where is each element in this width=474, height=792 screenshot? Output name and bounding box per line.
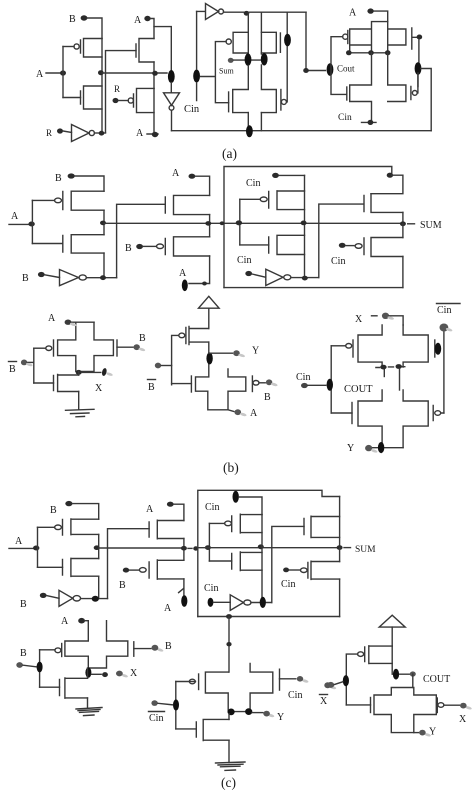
tg cross X gate xyxy=(58,322,114,371)
inverter INV2 (down) xyxy=(164,93,180,110)
wire TG risers down xyxy=(248,12,261,54)
scan smear near dot bYc xyxy=(371,449,378,454)
wire c rail to stage2 xyxy=(99,547,184,549)
label B (cX right) xyxy=(165,641,172,652)
junction blob bottom rail xyxy=(246,125,253,137)
node Cin blob cY right xyxy=(297,676,303,682)
wire Cinbar riser c xyxy=(272,526,304,602)
label A (stage2 bottom) xyxy=(136,128,144,139)
label A (right block) xyxy=(349,8,357,19)
wire stage2 tap to inverter column xyxy=(154,27,171,71)
wire box TG riser xyxy=(304,175,306,278)
svg-text:Cin: Cin xyxy=(237,255,251,266)
wire sumP gate b xyxy=(346,245,354,247)
node Xbar dot ccout xyxy=(327,682,334,688)
pmos P1 (B source) xyxy=(74,39,102,58)
junction blob XOR out xyxy=(168,70,175,83)
gate wire bN1 xyxy=(32,243,62,245)
node box top right dot xyxy=(387,173,393,178)
wire stage1 output riser xyxy=(101,39,103,134)
label A (stage1 input) xyxy=(36,69,44,80)
svg-text:Cin: Cin xyxy=(149,713,163,724)
vdd triangle (c) xyxy=(379,615,405,627)
node Y feed dot c xyxy=(226,614,232,619)
svg-text:COUT: COUT xyxy=(344,384,373,395)
node rail mark at box edge xyxy=(220,221,225,225)
node A2 dot xyxy=(144,16,150,21)
box frame (b) xyxy=(224,167,392,288)
label (a) xyxy=(222,146,237,161)
wire A to cX cross xyxy=(85,620,88,622)
wire A gate column right xyxy=(286,12,288,102)
wire box bottom edge c xyxy=(198,616,340,618)
nmos X right xyxy=(116,340,118,356)
svg-text:SUM: SUM xyxy=(420,220,442,231)
wire sumN to rail xyxy=(402,212,404,223)
gate wire cP1 xyxy=(38,526,55,528)
label R (pmos P2 gate) xyxy=(114,84,120,94)
node cbox TG out dot xyxy=(258,544,264,549)
wire ccoutP riser xyxy=(392,646,409,674)
label Cin (box lower left) xyxy=(237,255,251,266)
svg-text:Cin: Cin xyxy=(288,690,302,701)
scan smear near dot bBr xyxy=(271,382,278,387)
label B (cX bus) xyxy=(20,648,27,659)
node X dot ccout xyxy=(460,703,467,709)
label (b) xyxy=(223,460,239,475)
label Cinbar (c Y) xyxy=(149,712,165,725)
svg-text:Cin: Cin xyxy=(331,256,345,267)
tg cross cout lower xyxy=(358,390,428,448)
svg-text:A: A xyxy=(146,504,154,515)
wire Y out c xyxy=(252,712,263,714)
wire A right feed xyxy=(374,11,388,22)
junction blob cINV1 out xyxy=(92,596,99,602)
node SUM dot c xyxy=(337,545,343,550)
nmos cY right xyxy=(279,669,281,690)
wire cout mid connector xyxy=(399,369,401,391)
node A2 dot c xyxy=(167,502,174,507)
node inverter in dot xyxy=(57,128,63,133)
gate wire A to P1 xyxy=(63,46,74,48)
pmos ccout right xyxy=(437,698,444,713)
wire TG lower to rail xyxy=(248,113,261,131)
node Cinbar dot cY xyxy=(151,700,157,706)
gate wire cY left xyxy=(176,681,196,683)
node box rail in dot xyxy=(236,220,242,225)
wire bottom rail (a) xyxy=(172,130,432,132)
wire cY pulldown risers xyxy=(228,714,230,763)
nmos N2 xyxy=(136,39,154,63)
junction blob sum row left xyxy=(245,53,252,65)
label X (ccout) xyxy=(459,714,467,725)
label COUT (c) xyxy=(423,674,450,685)
node Y feed mid dot xyxy=(226,642,231,646)
node A dot c X gate xyxy=(78,618,85,624)
node small dot A bottom b xyxy=(202,282,207,286)
svg-text:B: B xyxy=(119,580,126,591)
wire A to X cross xyxy=(71,321,94,323)
wire bINV1 out xyxy=(86,277,116,279)
wire INV1 out xyxy=(94,132,105,134)
tg cross X gate c xyxy=(65,621,128,668)
node X dot cout xyxy=(382,313,389,319)
node box TG out dot xyxy=(301,221,307,226)
svg-text:Cout: Cout xyxy=(337,64,355,74)
svg-text:B: B xyxy=(20,648,27,659)
label B (X right) xyxy=(139,333,146,344)
node Y dot cout xyxy=(365,445,372,451)
nmos cout lower left xyxy=(351,403,353,424)
node c stage1 out dot xyxy=(94,545,100,550)
wire P2 gate xyxy=(119,100,129,102)
label Cinbar (b) xyxy=(437,304,461,317)
wire A bottom Y xyxy=(228,410,234,412)
nmos bN2 xyxy=(165,195,209,214)
gate wire cN1 xyxy=(38,566,63,568)
label A (X gate) xyxy=(48,313,56,324)
wire Bbar riser to stage2 gate xyxy=(106,51,137,133)
pmos gate bar TG upper left xyxy=(226,39,231,44)
junction blob ccout bus xyxy=(343,675,349,686)
pmos cP2 xyxy=(139,560,183,579)
nmos cX pulldown xyxy=(60,678,88,698)
svg-text:A: A xyxy=(11,211,19,222)
node box inv in dot xyxy=(245,271,252,276)
ground (b) xyxy=(66,409,95,417)
pmos X left xyxy=(46,340,54,356)
gate wire cout upper left xyxy=(331,345,346,347)
node P2 gate dot xyxy=(113,98,119,103)
svg-text:Y: Y xyxy=(347,443,354,454)
svg-text:Y: Y xyxy=(277,712,284,723)
label Cin (c box top) xyxy=(205,502,219,513)
nmos X pulldown xyxy=(54,375,79,392)
wire Bbar riser b xyxy=(117,204,166,277)
gate wire ccout left xyxy=(346,704,370,706)
node B dot Y right xyxy=(266,379,272,385)
inverter boxINV xyxy=(266,269,291,285)
wire X out xyxy=(82,371,101,373)
svg-text:Y: Y xyxy=(429,727,436,738)
wire A2 feed b xyxy=(195,176,209,195)
label Bbar (Y gate) xyxy=(148,380,156,394)
pmos csumP xyxy=(301,561,340,579)
label (c) xyxy=(221,775,236,790)
pmos bP2 xyxy=(157,237,210,256)
label Cin (c box lower) xyxy=(204,583,218,594)
node stage2 out dot xyxy=(152,71,158,76)
label Y (b) xyxy=(252,346,259,357)
gate wire boxP1 xyxy=(240,198,260,200)
nmos N1 xyxy=(81,86,103,109)
scan smear near dot cYr xyxy=(424,732,431,737)
wire Cinbar bus right xyxy=(443,331,445,413)
gate wire A to N1 xyxy=(63,97,81,99)
nmos gate right block lower xyxy=(346,87,348,100)
node c inv in dot xyxy=(40,593,47,598)
junction blob box top c xyxy=(233,491,239,503)
wire box gate bus xyxy=(239,199,241,245)
pmos Y top xyxy=(179,327,209,345)
node c stage2 out dot xyxy=(181,546,187,551)
wire blob to right rail xyxy=(418,69,431,131)
pmos cout lower right xyxy=(433,406,444,421)
inverter INV3 (top) xyxy=(197,4,224,20)
wire Cinbar to bus xyxy=(158,703,173,705)
wire vdd down c xyxy=(391,627,393,646)
label A (stage2 top) xyxy=(134,15,142,26)
junction blob c inv in xyxy=(208,598,214,607)
label B (c inverter) xyxy=(20,599,27,610)
pmos boxP1 xyxy=(260,191,304,210)
wire A gate bus xyxy=(62,47,64,98)
label B (b stage1) xyxy=(55,173,62,184)
svg-text:Cin: Cin xyxy=(246,178,260,189)
label X (cout block) xyxy=(355,314,363,325)
wire csumP gate xyxy=(289,569,300,571)
wire P2 bottom to A xyxy=(147,88,158,134)
wire Cbar gate xyxy=(418,40,420,64)
wire Cin to bus blob xyxy=(308,384,326,386)
junction blob cX out xyxy=(85,667,91,677)
wire vdd down xyxy=(208,308,210,328)
svg-text:R: R xyxy=(46,128,52,138)
label Cin (box top left) xyxy=(246,178,260,189)
label Cin (a) xyxy=(184,104,200,115)
wire Sum row xyxy=(234,59,263,61)
pmos gate bar TG lower right xyxy=(281,90,287,111)
svg-text:Cin: Cin xyxy=(184,104,200,115)
node boxINV out dot xyxy=(302,276,308,281)
label Cout xyxy=(337,64,355,74)
svg-text:B: B xyxy=(22,273,29,284)
svg-text:SUM: SUM xyxy=(355,545,376,555)
ground (c) xyxy=(216,762,246,770)
node Xbar gray dot c xyxy=(324,682,331,688)
node b stage2 out dot xyxy=(205,221,211,226)
wire COUT riser down xyxy=(412,674,414,688)
wire Y bottom cout xyxy=(372,447,403,449)
node stage1 out dot xyxy=(98,70,104,75)
tg cross lower right block xyxy=(350,53,406,123)
gate wire cX left xyxy=(40,649,55,651)
wire blob to TG riser c xyxy=(239,497,262,515)
pmos Y right xyxy=(252,376,259,392)
wire cout gate bus left xyxy=(330,346,332,413)
label Y (c) xyxy=(277,712,284,723)
nmos cX right xyxy=(133,642,135,656)
wire cN2 riser xyxy=(183,539,185,560)
scan smear near dot bXc xyxy=(387,316,394,321)
label A (Y bottom) xyxy=(250,408,258,419)
wire b stage1 riser xyxy=(103,210,105,278)
junction gray blob cX out xyxy=(116,671,123,677)
wire B feed b xyxy=(75,176,104,191)
junction blob Y riser xyxy=(206,352,212,364)
nmos Y left xyxy=(190,376,192,392)
wire b main rail xyxy=(104,222,403,224)
gate wire Y left xyxy=(172,383,192,385)
svg-text:Cin: Cin xyxy=(437,305,451,316)
gate wire cY pulldown xyxy=(176,728,197,730)
wire INV2 out to rail xyxy=(171,110,173,131)
label SUM xyxy=(420,220,442,231)
wire ccout gate bus xyxy=(346,654,357,705)
svg-text:A: A xyxy=(15,536,23,547)
svg-text:X: X xyxy=(95,383,103,394)
wire cout mid tick xyxy=(383,370,385,377)
wire X dash xyxy=(372,315,378,317)
wire B to P1 source xyxy=(87,18,102,39)
wire X feed cout xyxy=(389,316,403,325)
pmos gate right block upper xyxy=(343,31,348,44)
wire tick above blob xyxy=(179,589,184,593)
junction blob cY bus xyxy=(173,699,179,710)
node SUM dot xyxy=(400,221,406,226)
label Cin (cout block) xyxy=(296,372,310,383)
vdd triangle (b) xyxy=(199,296,220,308)
nmos gate bar TG lower left xyxy=(228,92,230,112)
label A (b stage2 bottom) xyxy=(179,268,187,279)
wire cbox TG riser xyxy=(261,515,263,602)
junction blob A bottom b xyxy=(182,280,188,292)
svg-text:B: B xyxy=(55,173,62,184)
wire Bbar riser c xyxy=(108,529,150,599)
node Sum dot xyxy=(228,58,234,63)
junction blob Y cout xyxy=(378,442,384,453)
node row dot 1 xyxy=(346,50,352,55)
svg-text:(a): (a) xyxy=(222,146,237,161)
label A (b stage2 top) xyxy=(172,168,180,179)
node bINV1 out dot xyxy=(100,275,106,280)
scan smear near dot cXbar xyxy=(329,685,336,690)
tg cross Y gate xyxy=(196,369,246,410)
svg-text:B: B xyxy=(9,364,16,375)
nmos sumN (b) xyxy=(364,194,403,213)
scan smear near dot cCin xyxy=(302,679,309,684)
label B (b inverter) xyxy=(22,273,29,284)
wire to inverter xyxy=(63,131,72,133)
label Xbar (c) xyxy=(320,695,329,708)
svg-text:X: X xyxy=(355,314,363,325)
box frame (c) xyxy=(198,490,340,616)
wire Y out xyxy=(209,352,233,354)
svg-text:Cin: Cin xyxy=(281,579,295,590)
wire Cout column xyxy=(306,12,326,70)
node cP2 gate dot xyxy=(123,568,129,573)
scan smear near dot cXr xyxy=(465,705,472,710)
wire cY gate bus xyxy=(175,682,177,729)
nmos cN1 xyxy=(63,558,99,576)
wire Bbar to Y bus xyxy=(161,365,171,367)
wire A input c xyxy=(9,547,38,549)
wire cX out xyxy=(91,673,101,675)
nmos cY pulldown xyxy=(196,719,229,740)
node A dot Y bottom xyxy=(235,409,242,415)
node bP2 gate dot xyxy=(136,244,143,249)
svg-text:A: A xyxy=(250,408,258,419)
junction blob cboxINV out xyxy=(260,597,266,608)
inverter bINV1 xyxy=(60,270,87,286)
nmos cout upper right xyxy=(434,340,436,357)
node row dot 3 xyxy=(385,50,391,55)
wire b inv in xyxy=(45,275,60,278)
gate wire cboxN xyxy=(209,560,231,562)
svg-text:Cin: Cin xyxy=(296,372,310,383)
label A (b input) xyxy=(11,211,19,222)
label Cin (sumP) xyxy=(331,256,345,267)
scan smear near dot cX xyxy=(121,673,128,678)
svg-text:A: A xyxy=(134,15,142,26)
tg cross cout c xyxy=(374,688,436,733)
svg-text:B: B xyxy=(125,243,132,254)
label A (c stage2 top) xyxy=(146,504,154,515)
nmos bN1 xyxy=(63,235,104,253)
node cY out blob 1 xyxy=(228,709,235,716)
inverter cboxINV xyxy=(230,595,251,611)
wire cout mid dashes xyxy=(376,366,405,369)
svg-text:X: X xyxy=(320,696,328,707)
wire sum nmos drain jog xyxy=(371,175,403,194)
node B dot cX xyxy=(16,662,23,668)
label B (Y right) xyxy=(264,392,271,403)
label Cin (right block) xyxy=(338,113,352,123)
label Cin (csumP) xyxy=(281,579,295,590)
svg-text:(c): (c) xyxy=(221,775,236,790)
wire csumP risers xyxy=(339,548,341,617)
ground (c X gate) xyxy=(76,708,102,716)
gate wire boxN1 xyxy=(240,244,269,246)
svg-text:B: B xyxy=(139,333,146,344)
svg-text:R: R xyxy=(114,84,120,94)
node B gray dot cX right xyxy=(152,645,159,651)
node COUT dot c xyxy=(410,671,416,676)
svg-text:B: B xyxy=(148,382,155,393)
gate wire X pmos xyxy=(34,347,46,349)
node c rail dot at edge xyxy=(193,546,198,550)
scan smear near dot bY xyxy=(238,353,245,358)
svg-text:B: B xyxy=(69,14,76,25)
svg-text:B: B xyxy=(50,505,57,516)
wire dots row right block xyxy=(349,52,388,54)
gate wire cX pulldown xyxy=(40,686,60,688)
junction blob Cout xyxy=(327,63,334,76)
label Sum xyxy=(219,67,234,76)
pmos cY left xyxy=(189,674,198,690)
node A right dot xyxy=(367,8,373,13)
node X out dot xyxy=(76,370,82,375)
wire Xbar to bus xyxy=(334,682,343,685)
label SUM (c) xyxy=(355,545,376,555)
nmos ccout left xyxy=(370,698,372,713)
node Cout dot xyxy=(303,68,309,73)
nmos csumN xyxy=(304,516,340,537)
node cY out blob 2 xyxy=(245,708,252,715)
wire c rail inside box xyxy=(198,547,340,549)
junction blob ccout xyxy=(393,669,399,680)
label X (c) xyxy=(130,668,138,679)
svg-text:A: A xyxy=(349,8,357,19)
node b inv in dot xyxy=(38,272,45,277)
wire Y gate bus xyxy=(172,335,179,384)
nmos gate bar TG upper right xyxy=(279,33,281,52)
node A dot c xyxy=(33,546,39,551)
wire Bbar to bus xyxy=(27,361,34,363)
wire cboxINV out xyxy=(251,602,272,604)
wire cINV1 out xyxy=(81,598,108,600)
svg-text:A: A xyxy=(172,168,180,179)
